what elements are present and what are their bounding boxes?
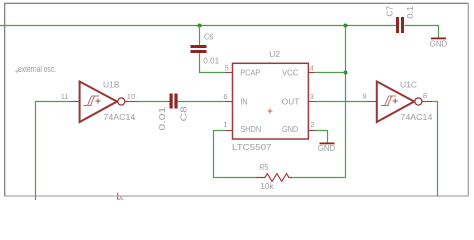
C8 plates (170, 94, 178, 109)
C7 plates (396, 17, 404, 33)
svg-text:LTC5507: LTC5507 (232, 142, 272, 152)
svg-text:IN: IN (240, 97, 248, 107)
wire: VCC pin 4 to vertical drop (316, 72, 346, 74)
svg-text:SHDN: SHDN (240, 124, 261, 134)
svg-text:74AC14: 74AC14 (400, 112, 432, 122)
wire: left vertical up to U1B input pin 11 (36, 102, 71, 201)
wire: GND pin 2 to ground symbol (316, 131, 328, 144)
svg-text:GND: GND (282, 124, 298, 134)
node: sheet origin mark at bottom (114, 193, 123, 201)
svg-text:4: 4 (310, 63, 314, 72)
node: external osc net label (15, 64, 56, 74)
svg-text:OUT: OUT (282, 97, 300, 107)
wire: OUT pin 3 to U1C pin 9 (316, 101, 368, 103)
U1C output bubble (415, 98, 422, 105)
svg-text:0.01: 0.01 (157, 106, 167, 130)
U1B input pin stub (70, 101, 80, 103)
U1C hysteresis symbol (381, 96, 397, 106)
svg-text:3: 3 (310, 92, 314, 101)
svg-text:5: 5 (225, 63, 229, 72)
ground symbol at U2 pin 2 (318, 143, 335, 153)
node: junction at VCC pin branch (344, 71, 348, 75)
svg-text:74AC14: 74AC14 (103, 112, 135, 122)
svg-text:C8: C8 (179, 106, 189, 122)
wire: C7 right plate to GND corner (405, 26, 439, 39)
node: junction on rail above C6 (198, 24, 202, 28)
IC U2 LTC5507 (223, 49, 315, 152)
node: junction on rail above VCC drop (344, 24, 348, 28)
capacitor C7 (385, 6, 415, 33)
svg-text:11: 11 (61, 92, 69, 101)
svg-text:2: 2 (310, 120, 314, 129)
R5 zigzag body (256, 174, 292, 182)
wire: SHDN pin 1 loop down to R5 left lead (214, 131, 257, 178)
frame border (5, 3, 469, 196)
svg-text:0.1: 0.1 (405, 6, 415, 19)
svg-text:GND: GND (318, 143, 335, 153)
wire: top VCC rail from left edge to C7 (0, 25, 396, 27)
svg-text:R5: R5 (259, 162, 268, 172)
svg-text:U1B: U1B (103, 80, 120, 90)
C6 plates (191, 45, 207, 53)
U1B triangle body (80, 82, 117, 123)
wire: C6 bottom plate to PCAP pin 5 (200, 53, 226, 73)
inverter U1B (74AC14 schmitt-trigger) (61, 80, 138, 123)
U2 pin 3 OUT stub (308, 101, 315, 103)
U1C triangle body (377, 82, 414, 123)
svg-text:10: 10 (127, 92, 135, 101)
U1B hysteresis plus mark (96, 99, 101, 104)
U2 pin 2 GND stub (308, 130, 315, 132)
svg-text:external osc.: external osc. (18, 64, 56, 74)
U2 origin cross (268, 109, 273, 114)
svg-text:C7: C7 (385, 6, 395, 17)
svg-text:0.01: 0.01 (203, 55, 219, 65)
svg-text:GND: GND (430, 38, 447, 48)
wire: C8 right plate to IN pin 6 (178, 101, 226, 103)
U1C input pin stub (367, 101, 377, 103)
svg-text:C6: C6 (204, 32, 214, 42)
U2 body outline (233, 63, 309, 139)
svg-text:9: 9 (362, 91, 366, 100)
resistor R5 (256, 162, 292, 191)
U1C output pin stub (422, 101, 432, 103)
U1B output bubble (118, 98, 125, 105)
svg-text:6: 6 (223, 92, 227, 101)
ground symbol at C7 (430, 38, 447, 49)
wire: U1C output pin 8 down right side (432, 102, 438, 197)
U1C hysteresis plus mark (393, 99, 398, 104)
svg-text:PCAP: PCAP (240, 67, 260, 77)
wire: U1B output pin 10 to C8 left plate (138, 101, 170, 103)
svg-text:8: 8 (423, 91, 427, 100)
U2 pin 6 IN stub (225, 101, 232, 103)
svg-text:VCC: VCC (282, 67, 298, 77)
svg-text:1: 1 (223, 120, 227, 129)
U1B output pin stub (125, 101, 137, 103)
wire: VCC vertical drop from rail to R5 right lead (292, 26, 346, 178)
U2 pin 4 VCC stub (308, 72, 315, 74)
svg-text:10k: 10k (260, 181, 274, 191)
inverter U1C (74AC14 schmitt-trigger) (362, 80, 432, 123)
wire: rail down to C6 top plate (199, 26, 201, 46)
capacitor C8 (157, 94, 189, 131)
svg-text:U1C: U1C (400, 80, 417, 90)
U2 pin 5 PCAP stub (225, 72, 232, 74)
U1B hysteresis symbol (84, 96, 100, 106)
U2 pin 1 SHDN stub (225, 130, 232, 132)
capacitor C6 (191, 32, 220, 66)
svg-text:U2: U2 (269, 49, 280, 59)
